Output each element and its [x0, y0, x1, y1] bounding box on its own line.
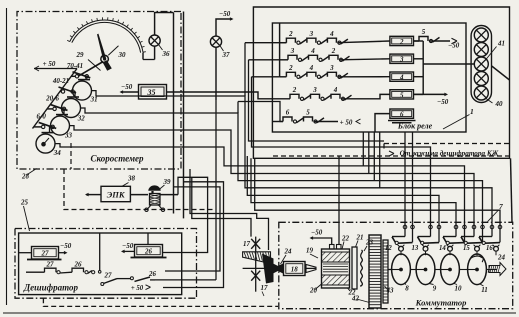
svg-text:2: 2 — [288, 30, 293, 38]
svg-text:43: 43 — [386, 287, 395, 295]
svg-text:29: 29 — [76, 51, 85, 59]
svg-text:32: 32 — [77, 114, 86, 122]
svg-text:2: 2 — [288, 64, 293, 72]
svg-text:3: 3 — [399, 56, 404, 64]
svg-text:ЭПК: ЭПК — [107, 190, 126, 200]
svg-text:15: 15 — [463, 245, 470, 252]
svg-text:Коммутатор: Коммутатор — [415, 298, 467, 308]
svg-text:5: 5 — [400, 91, 404, 99]
svg-text:27: 27 — [46, 261, 55, 269]
svg-text:39: 39 — [163, 178, 172, 186]
svg-text:12: 12 — [385, 245, 392, 252]
svg-text:−50: −50 — [121, 83, 133, 91]
svg-text:30: 30 — [118, 51, 127, 59]
svg-text:2: 2 — [399, 38, 404, 46]
svg-text:13: 13 — [412, 245, 419, 252]
svg-text:6: 6 — [286, 109, 290, 117]
svg-text:3: 3 — [312, 86, 317, 94]
svg-text:17: 17 — [243, 240, 251, 248]
svg-text:40: 40 — [495, 100, 504, 108]
svg-text:−50: −50 — [311, 229, 323, 237]
svg-text:8: 8 — [405, 285, 409, 293]
svg-text:1: 1 — [470, 107, 474, 116]
svg-text:5: 5 — [306, 109, 310, 117]
svg-text:Блок реле: Блок реле — [397, 122, 433, 131]
svg-text:5: 5 — [422, 28, 426, 36]
svg-text:38: 38 — [127, 175, 136, 183]
svg-text:6: 6 — [400, 111, 404, 119]
svg-text:11: 11 — [481, 286, 488, 294]
svg-text:70-41: 70-41 — [67, 62, 83, 70]
svg-text:41: 41 — [497, 40, 505, 48]
svg-text:40-21: 40-21 — [52, 77, 69, 85]
svg-text:24: 24 — [497, 254, 506, 262]
svg-text:16: 16 — [486, 245, 493, 252]
svg-text:3: 3 — [329, 64, 334, 72]
svg-text:−50: −50 — [60, 242, 72, 250]
svg-text:2: 2 — [331, 47, 336, 55]
svg-text:33: 33 — [64, 132, 73, 140]
svg-text:24: 24 — [284, 248, 293, 256]
svg-text:26: 26 — [74, 261, 83, 269]
svg-text:+ 50: + 50 — [340, 119, 353, 127]
svg-text:21: 21 — [356, 234, 364, 242]
svg-text:17: 17 — [261, 284, 269, 292]
svg-text:34: 34 — [53, 149, 62, 157]
svg-text:20: 20 — [309, 287, 318, 295]
svg-text:6-0: 6-0 — [37, 113, 47, 121]
svg-text:19: 19 — [306, 247, 314, 255]
svg-text:14: 14 — [439, 245, 446, 252]
svg-text:9: 9 — [433, 285, 437, 293]
svg-text:26: 26 — [144, 248, 153, 256]
svg-text:4: 4 — [310, 47, 315, 55]
svg-text:−50: −50 — [122, 242, 134, 250]
svg-text:+ 50: + 50 — [43, 60, 56, 68]
svg-text:36: 36 — [162, 50, 171, 58]
svg-text:Скоростемер: Скоростемер — [90, 154, 144, 164]
svg-text:−50: −50 — [437, 98, 449, 106]
svg-text:4: 4 — [399, 74, 404, 82]
svg-text:37: 37 — [222, 51, 231, 59]
svg-text:Дешифратор: Дешифратор — [23, 283, 78, 293]
svg-text:−50: −50 — [219, 10, 231, 18]
svg-text:18: 18 — [291, 266, 299, 274]
svg-text:27: 27 — [104, 272, 113, 280]
svg-text:2: 2 — [292, 86, 297, 94]
svg-text:+ 50: + 50 — [131, 285, 144, 292]
svg-text:20-6: 20-6 — [45, 95, 59, 103]
svg-text:10: 10 — [455, 285, 463, 293]
svg-text:3: 3 — [290, 47, 295, 55]
svg-text:4: 4 — [309, 64, 314, 72]
svg-text:22: 22 — [341, 235, 350, 243]
svg-text:От зажима дешифратора КЖ: От зажима дешифратора КЖ — [400, 149, 499, 157]
svg-text:4: 4 — [329, 30, 334, 38]
svg-text:25: 25 — [20, 199, 29, 207]
svg-text:27: 27 — [41, 250, 50, 258]
svg-text:3: 3 — [309, 30, 314, 38]
svg-text:7: 7 — [499, 202, 503, 211]
svg-text:4: 4 — [333, 86, 338, 94]
svg-text:42: 42 — [351, 295, 360, 303]
